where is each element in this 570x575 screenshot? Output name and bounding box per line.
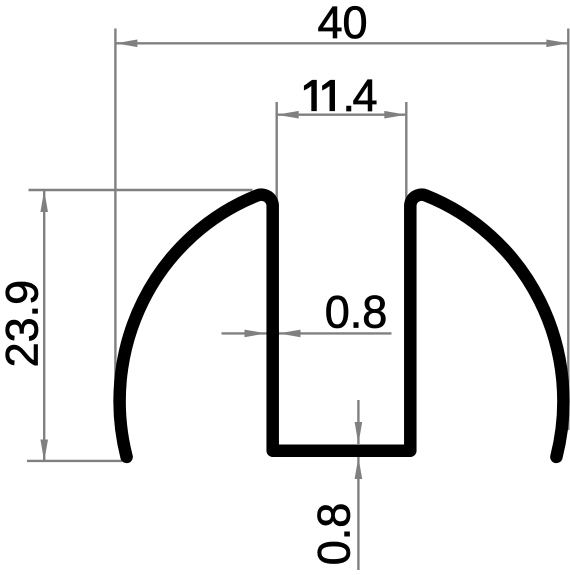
svg-text:0.8: 0.8	[309, 503, 360, 566]
dim 0.8 bottom lower leader	[357, 457, 359, 570]
arrow 23.9 down	[40, 440, 48, 462]
svg-text:40: 40	[317, 0, 367, 48]
dim 0.8 wall right tail	[279, 332, 392, 334]
dim 11.4 right extension line	[405, 102, 407, 201]
arrow 0.8 bottom pointing up	[355, 457, 363, 479]
arrow 11.4 left	[277, 111, 299, 119]
arrow 40 left	[115, 40, 137, 48]
dim 40 left extension line	[114, 29, 116, 409]
arrow 0.8 wall pointing left	[279, 330, 301, 338]
label 11.4 digit 1 (first)	[304, 80, 316, 111]
dim 11.4 left extension line	[276, 102, 278, 201]
arrow 0.8 bottom pointing down	[355, 422, 363, 444]
svg-text:4: 4	[353, 70, 378, 121]
arrow 11.4 right	[384, 111, 406, 119]
arrow 0.8 wall pointing right	[245, 330, 267, 338]
svg-text:23.9: 23.9	[0, 280, 48, 368]
dim 23.9 dimension line	[43, 190, 45, 462]
label 11.4 digit 1 (second)	[323, 80, 335, 111]
arrow 40 right	[546, 40, 568, 48]
dim 0.8 wall left tail	[222, 332, 267, 334]
dim 11.4 dimension line	[277, 113, 407, 115]
dim 40 right extension line	[567, 29, 569, 431]
dim 0.8 bottom upper leader	[357, 400, 359, 444]
dim 23.9 top tick	[29, 189, 253, 191]
svg-text:0.8: 0.8	[325, 287, 388, 338]
arrow 23.9 up	[40, 190, 48, 212]
dim 40 dimension line	[115, 42, 568, 44]
profile outline	[120, 195, 564, 457]
dim 23.9 bottom tick	[27, 460, 122, 462]
